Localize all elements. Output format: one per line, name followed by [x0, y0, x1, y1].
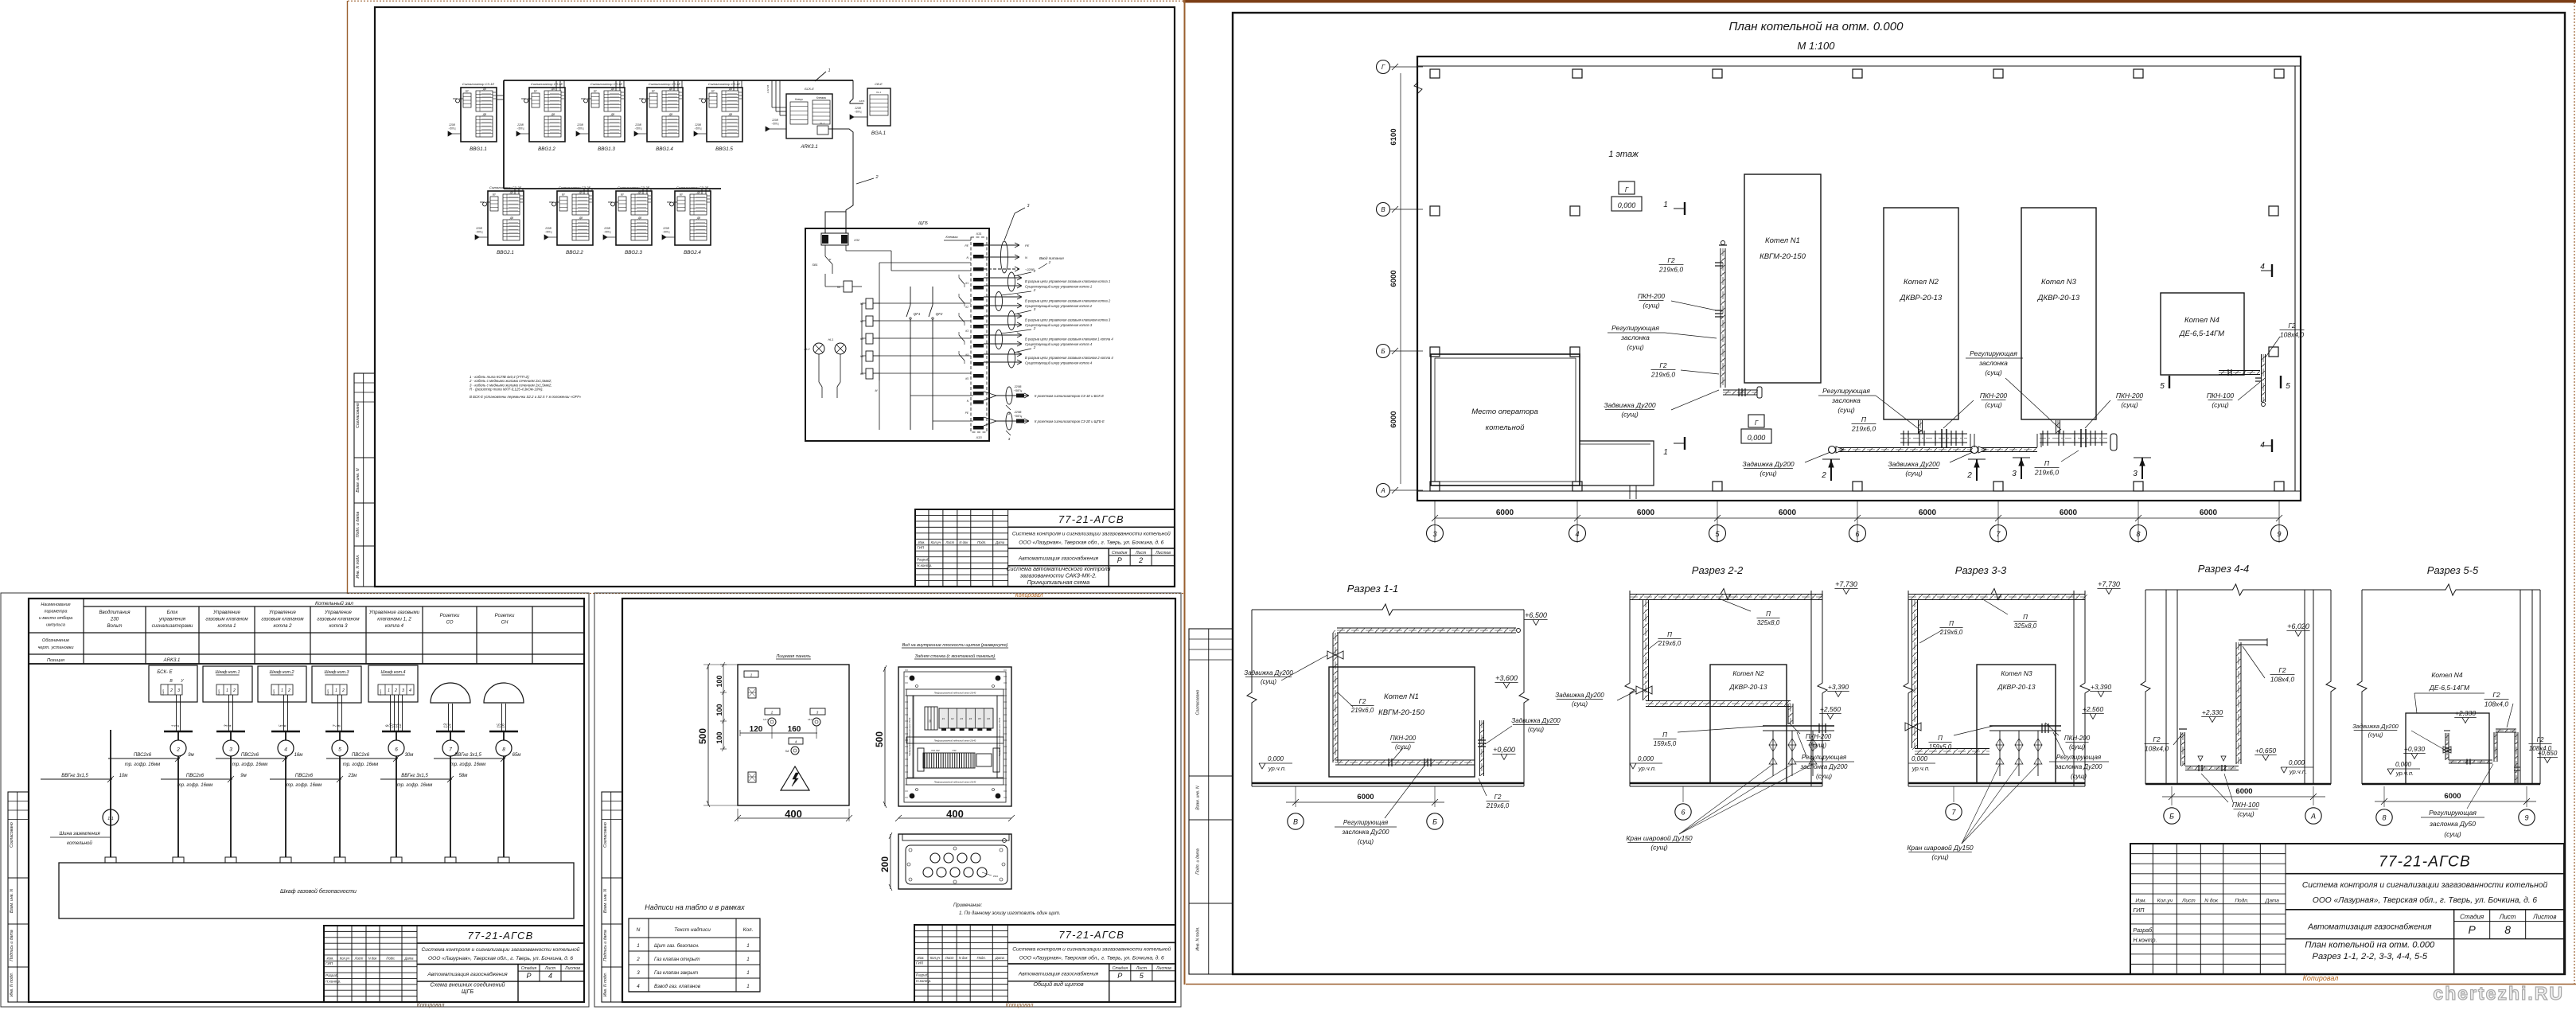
svg-text:Система контроля и сигнализаци: Система контроля и сигнализации загазова…	[1012, 530, 1171, 536]
wire bus top	[504, 80, 853, 81]
svg-text:ДВ: ДВ	[551, 113, 555, 116]
svg-text:Шкаф кот.2: Шкаф кот.2	[270, 670, 294, 675]
svg-text:Конт: Конт	[379, 689, 382, 696]
svg-text:ВВG2.1: ВВG2.1	[497, 250, 514, 255]
svg-text:(сущ): (сущ)	[2069, 743, 2085, 751]
svg-text:котла 2: котла 2	[273, 623, 292, 629]
svg-text:6: 6	[283, 724, 288, 727]
title block	[324, 926, 584, 1002]
svg-text:К1: К1	[965, 282, 968, 285]
left margin stamp boxes	[8, 792, 29, 1002]
elevation box 1	[1619, 181, 1635, 194]
svg-text:Г2: Г2	[1667, 256, 1675, 264]
svg-text:Перфорированный кабельный кана: Перфорированный кабельный канал 25х40	[999, 717, 1001, 756]
svg-text:Котел N1: Котел N1	[1765, 236, 1800, 245]
box BSK-E	[149, 665, 197, 702]
svg-text:Конт: Конт	[162, 689, 165, 696]
svg-text:Газ клапан открыт: Газ клапан открыт	[654, 957, 700, 962]
sheet 3 frame	[622, 599, 1175, 1002]
title block	[915, 509, 1175, 587]
wire ARK3.1 X1.1 to cabinet	[828, 129, 853, 228]
svg-text:6000: 6000	[1357, 793, 1374, 801]
svg-text:(сущ): (сущ)	[1627, 343, 1643, 351]
svg-text:220В: 220В	[448, 123, 455, 127]
svg-text:(сущ): (сущ)	[1810, 742, 1826, 749]
svg-text:220В: 220В	[475, 227, 482, 230]
svg-text:Газ клапан закрыт: Газ клапан закрыт	[654, 970, 698, 976]
svg-text:2: 2	[1033, 269, 1036, 273]
svg-text:К2: К2	[951, 717, 954, 720]
svg-text:(сущ): (сущ)	[2212, 401, 2228, 409]
svg-text:1: 1	[281, 688, 283, 693]
svg-text:220В: 220В	[662, 227, 669, 230]
svg-text:Котел N4: Котел N4	[2431, 671, 2463, 679]
svg-text:Управление газовыми: Управление газовыми	[368, 610, 420, 615]
svg-text:управления: управления	[158, 617, 186, 622]
svg-text:16: 16	[501, 723, 506, 728]
svg-text:2: 2	[1821, 471, 1826, 480]
svg-text:Обозначение: Обозначение	[42, 638, 69, 643]
svg-text:Перфорированный кабельный кана: Перфорированный кабельный канал 25х40	[909, 717, 911, 756]
svg-text:Подп.: Подп.	[977, 956, 986, 960]
output sockets group 2	[984, 417, 1029, 426]
glands	[930, 853, 940, 863]
svg-text:+6,500: +6,500	[1525, 611, 1547, 619]
svg-text:ГИП: ГИП	[325, 961, 333, 965]
section 3-3 walls	[1904, 591, 1913, 786]
svg-text:+2,560: +2,560	[2083, 705, 2104, 713]
svg-text:Котел N4: Котел N4	[2184, 316, 2219, 325]
svg-text:6000: 6000	[2444, 792, 2461, 801]
svg-text:Стадия: Стадия	[2460, 913, 2484, 920]
svg-text:В разрыв цепи управления газов: В разрыв цепи управления газовым клапано…	[1025, 279, 1110, 283]
svg-text:Шкаф газовой безопасности: Шкаф газовой безопасности	[280, 888, 357, 895]
svg-text:(сущ): (сущ)	[1528, 726, 1544, 733]
svg-text:ДВ: ДВ	[668, 113, 673, 116]
section 2-2 walls	[1625, 591, 1635, 786]
output group kotel 4	[984, 334, 1022, 336]
svg-text:108х4,0: 108х4,0	[2270, 676, 2295, 684]
svg-text:К5: К5	[965, 377, 968, 380]
section 2-2 grid circle	[1682, 786, 1684, 802]
svg-text:Кол.уч: Кол.уч	[340, 956, 350, 960]
svg-text:заслонка Ду200: заслонка Ду200	[1342, 829, 1390, 836]
svg-text:1: 1	[746, 970, 749, 976]
svg-text:219х6,0: 219х6,0	[1650, 371, 1676, 379]
svg-text:Разраб.: Разраб.	[325, 973, 339, 977]
svg-text:+6,020: +6,020	[2287, 622, 2309, 630]
svg-text:+7,730: +7,730	[1835, 580, 1857, 588]
svg-text:PE: PE	[1025, 244, 1030, 248]
svg-text:chertezhi.RU: chertezhi.RU	[2433, 983, 2564, 1004]
svg-text:Кол.уч: Кол.уч	[2157, 899, 2173, 904]
svg-text:НL1: НL1	[763, 718, 768, 721]
bottom dimension line	[1435, 517, 2279, 519]
wire bus bottom row	[504, 188, 721, 189]
svg-text:СН: СН	[501, 620, 509, 626]
svg-text:6000: 6000	[2200, 509, 2218, 517]
svg-text:А: А	[2310, 813, 2316, 821]
svg-text:Регулирующая: Регулирующая	[1822, 387, 1870, 395]
svg-text:К1: К1	[942, 717, 945, 720]
svg-text:~50Гц: ~50Гц	[663, 231, 670, 234]
svg-text:(сущ): (сущ)	[1395, 743, 1411, 751]
connector X32	[821, 233, 848, 245]
svg-text:4: 4	[2260, 263, 2265, 271]
svg-text:~50Гц: ~50Гц	[855, 111, 862, 114]
svg-text:2: 2	[232, 688, 236, 693]
svg-text:Лист: Лист	[354, 956, 364, 960]
svg-text:2: 2	[176, 747, 180, 753]
svg-text:План котельной на отм. 0.000: План котельной на отм. 0.000	[2305, 940, 2435, 950]
svg-text:6: 6	[1855, 530, 1859, 538]
svg-text:Разраб.: Разраб.	[2133, 927, 2153, 934]
svg-text:N док: N док	[2204, 898, 2219, 904]
svg-text:К4: К4	[965, 353, 968, 357]
svg-text:Инв. N подл.: Инв. N подл.	[10, 973, 14, 996]
svg-text:2: 2	[636, 957, 640, 962]
svg-text:К4: К4	[969, 717, 972, 720]
svg-text:0,000: 0,000	[1268, 755, 1284, 762]
svg-text:77-21-АГСВ: 77-21-АГСВ	[1058, 513, 1124, 525]
svg-text:П: П	[1861, 415, 1867, 423]
svg-text:ДВ: ДВ	[637, 216, 642, 220]
svg-text:219х6,0: 219х6,0	[2034, 469, 2060, 477]
svg-text:1: 1	[746, 984, 749, 989]
svg-text:Надписи на табло и в рамках: Надписи на табло и в рамках	[645, 903, 745, 911]
svg-text:ДВ: ДВ	[482, 113, 487, 116]
socket dome CO	[431, 683, 470, 703]
section 5-5 walls	[2357, 590, 2367, 784]
svg-text:Г2: Г2	[2153, 735, 2161, 743]
svg-text:Шкаф кот.1: Шкаф кот.1	[216, 670, 240, 675]
svg-text:~50Гц: ~50Гц	[604, 231, 611, 234]
cable channels	[906, 689, 1004, 696]
relay K6	[824, 274, 826, 287]
PKN-200 and damper assembly kotel N2	[1900, 433, 1967, 435]
svg-text:ДВ: ДВ	[696, 216, 701, 220]
svg-text:В разрыв цепи управления газов: В разрыв цепи управления газовым клапано…	[1025, 337, 1113, 341]
svg-text:100: 100	[715, 675, 723, 687]
svg-text:58м: 58м	[459, 774, 468, 778]
svg-text:ПКН-200: ПКН-200	[2116, 392, 2144, 400]
box shkaf kot3	[312, 666, 361, 703]
svg-text:325х8,0: 325х8,0	[2014, 622, 2037, 630]
svg-text:Х33: Х33	[952, 749, 957, 752]
svg-text:Дата: Дата	[995, 956, 1005, 960]
svg-text:Позиция: Позиция	[47, 658, 64, 663]
gland box dims	[890, 834, 891, 889]
svg-text:3: 3	[637, 970, 640, 976]
svg-text:Изм.: Изм.	[918, 540, 926, 544]
svg-text:108х4,0: 108х4,0	[2280, 331, 2305, 339]
svg-text:ДКВР-20-13: ДКВР-20-13	[2037, 294, 2080, 302]
svg-text:220В: 220В	[516, 123, 524, 127]
svg-text:219х6,0: 219х6,0	[1658, 640, 1682, 647]
svg-text:2: 2	[287, 688, 290, 693]
svg-text:заслонка: заслонка	[1978, 359, 2008, 367]
svg-text:П: П	[2023, 614, 2028, 621]
svg-text:заслонка: заслонка	[1831, 396, 1861, 404]
svg-text:+3,390: +3,390	[1828, 683, 1849, 691]
svg-text:Кол.: Кол.	[743, 927, 754, 933]
svg-text:ДКВР-20-13: ДКВР-20-13	[1900, 294, 1943, 302]
svg-text:8: 8	[502, 747, 505, 753]
rear panel dims	[884, 667, 886, 806]
svg-text:N: N	[637, 927, 641, 933]
sheet 3 paper edge	[594, 593, 1181, 1007]
svg-text:(сущ): (сущ)	[1837, 406, 1854, 414]
svg-text:6: 6	[1681, 809, 1685, 817]
svg-text:2: 2	[1033, 345, 1036, 349]
svg-text:Х1.1: Х1.1	[819, 122, 825, 125]
gland box	[898, 834, 1011, 889]
svg-text:120: 120	[750, 725, 763, 734]
svg-text:Лист: Лист	[2181, 899, 2196, 904]
svg-text:(сущ): (сущ)	[1572, 700, 1588, 708]
svg-text:ГИП: ГИП	[916, 961, 924, 965]
riser to boiler N2	[1918, 420, 1919, 434]
svg-text:~50Гц: ~50Гц	[1014, 415, 1023, 418]
grid circles numbers	[1427, 525, 1444, 542]
svg-text:Х33: Х33	[975, 435, 982, 439]
output group kotel 2	[984, 296, 1022, 298]
svg-text:Взам. инв. N: Взам. инв. N	[1196, 786, 1201, 809]
svg-text:ур.ч.п.: ур.ч.п.	[2289, 768, 2307, 775]
svg-text:К розеткам сигнализаторов СЗ-1: К розеткам сигнализаторов СЗ-1Е и БСК-Е	[1035, 394, 1104, 398]
svg-text:Изм.: Изм.	[327, 956, 334, 960]
svg-text:QF2: QF2	[936, 312, 943, 316]
svg-text:Регулирующая: Регулирующая	[2429, 809, 2477, 817]
svg-text:Примечание:: Примечание:	[953, 903, 983, 908]
box shkaf kot2	[258, 666, 306, 702]
svg-text:ВGA.1: ВGA.1	[871, 131, 886, 136]
column squares rows B,B2	[1430, 206, 1440, 216]
svg-text:ВВG2.3: ВВG2.3	[625, 250, 642, 255]
svg-text:Котельный зал: Котельный зал	[315, 600, 353, 606]
svg-text:Н.контр.: Н.контр.	[325, 979, 341, 983]
svg-text:заслонка Ду200: заслонка Ду200	[1800, 763, 1849, 770]
svg-text:К6: К6	[987, 717, 990, 720]
svg-text:Вводпитания: Вводпитания	[99, 610, 131, 615]
svg-text:тр. гофр. 16мм: тр. гофр. 16мм	[286, 783, 322, 788]
svg-text:4: 4	[637, 984, 640, 989]
svg-text:Лицевая панель: Лицевая панель	[775, 654, 811, 659]
svg-text:параметра: параметра	[44, 610, 67, 614]
svg-text:ХАТ1: ХАТ1	[858, 99, 865, 103]
boiler N2	[1884, 208, 1958, 419]
svg-text:ПВС2х6: ПВС2х6	[134, 753, 152, 758]
svg-text:+7,730: +7,730	[2098, 580, 2120, 588]
boiler N1	[1744, 174, 1821, 383]
svg-text:котельной: котельной	[1486, 423, 1526, 432]
svg-text:+0,930: +0,930	[2404, 745, 2426, 753]
svg-text:9: 9	[2524, 814, 2528, 822]
svg-text:1: 1	[1663, 448, 1668, 457]
svg-text:16м: 16м	[294, 753, 303, 758]
svg-text:КВГМ-20-150: КВГМ-20-150	[1760, 252, 1806, 261]
svg-text:Х31 Х32: Х31 Х32	[930, 749, 940, 752]
svg-text:Вид на внутренние плоскости щи: Вид на внутренние плоскости щитов (разве…	[902, 643, 1008, 648]
svg-text:П: П	[1766, 610, 1771, 618]
section 4-4 dim	[2171, 786, 2173, 805]
svg-text:Стадия: Стадия	[521, 966, 537, 971]
wall break marks bottom	[1629, 486, 1631, 499]
svg-text:5: 5	[2160, 382, 2165, 391]
svg-text:~50Гц: ~50Гц	[476, 231, 483, 234]
svg-text:котла 4: котла 4	[385, 623, 404, 629]
svg-text:Взвод газ. клапанов: Взвод газ. клапанов	[654, 984, 701, 989]
svg-text:220В: 220В	[603, 227, 610, 230]
svg-text:Шина заземления: Шина заземления	[59, 831, 100, 836]
svg-text:6000: 6000	[1779, 509, 1797, 517]
svg-text:ПВС2х6: ПВС2х6	[295, 774, 314, 778]
svg-text:R - (резистор типа МЛТ-0,125-4: R - (резистор типа МЛТ-0,125-4,3кОм-10%)…	[470, 388, 544, 392]
svg-text:220В: 220В	[576, 123, 583, 127]
wire stubs ВВG2.3 to bus	[642, 189, 644, 194]
svg-text:Регулирующая: Регулирующая	[1343, 819, 1389, 826]
sheet 2 frame	[29, 599, 584, 1002]
svg-text:6100: 6100	[1389, 128, 1398, 145]
svg-text:12: 12	[398, 723, 403, 728]
section 1-1 boiler	[1329, 667, 1475, 777]
svg-text:ур.ч.п.: ур.ч.п.	[1268, 765, 1286, 772]
svg-text:325х8,0: 325х8,0	[1757, 619, 1780, 626]
svg-text:К5: К5	[978, 717, 981, 720]
lamps HL2 HL1	[813, 343, 824, 354]
svg-text:100: 100	[715, 704, 723, 716]
wire stubs ВВG1.5 to bus	[733, 80, 735, 91]
svg-text:8: 8	[2382, 814, 2386, 822]
svg-text:Лист: Лист	[945, 540, 954, 544]
svg-text:2: 2	[875, 175, 878, 180]
svg-text:Г: Г	[1382, 64, 1385, 71]
svg-text:Г2: Г2	[1659, 361, 1667, 369]
sheet 4 paper edges	[1183, 0, 2576, 3]
svg-text:220В: 220В	[1014, 411, 1022, 414]
svg-text:ВВG1.3: ВВG1.3	[598, 146, 615, 152]
svg-text:1: 1	[388, 688, 390, 693]
svg-text:6000: 6000	[2060, 509, 2078, 517]
svg-text:Сигнализатор СЗ-1Е: Сигнализатор СЗ-1Е	[649, 82, 681, 86]
wire BBG1.1 to bus	[497, 95, 504, 96]
grid circles letters	[1377, 60, 1390, 74]
svg-text:и место отбора: и место отбора	[39, 616, 72, 621]
contact symbols near strip	[959, 278, 965, 284]
svg-text:500: 500	[697, 728, 708, 744]
svg-text:7: 7	[449, 747, 452, 753]
svg-text:Система контроля и сигнализаци: Система контроля и сигнализации загазова…	[2302, 881, 2548, 890]
svg-text:Задвижка Ду200: Задвижка Ду200	[1888, 460, 1940, 468]
svg-text:6: 6	[395, 747, 398, 753]
svg-text:Инв. N подл.: Инв. N подл.	[603, 973, 608, 996]
svg-text:ПВС2х6: ПВС2х6	[186, 774, 205, 778]
svg-text:котельной: котельной	[67, 840, 92, 846]
svg-text:Котел N2: Котел N2	[1732, 669, 1764, 677]
svg-text:Общий вид щитов: Общий вид щитов	[1033, 981, 1083, 988]
svg-text:Шкаф кот.4: Шкаф кот.4	[381, 670, 406, 675]
svg-text:Р: Р	[1117, 972, 1122, 980]
section marks plan	[1684, 202, 1686, 215]
svg-text:Клеммы: Клеммы	[816, 96, 827, 99]
svg-text:В разрыв цепи управления газов: В разрыв цепи управления газовым клапано…	[1025, 356, 1113, 360]
svg-text:К2: К2	[965, 306, 968, 309]
svg-text:К3: К3	[965, 330, 968, 333]
svg-text:сигнализаторами: сигнализаторами	[152, 623, 193, 629]
svg-text:Н.контр.: Н.контр.	[916, 979, 931, 983]
svg-text:План котельной на отм. 0.000: План котельной на отм. 0.000	[1729, 20, 1904, 33]
svg-text:Лист: Лист	[945, 956, 954, 960]
svg-text:Перфорированный кабельный кана: Перфорированный кабельный канал 25х40	[934, 739, 976, 743]
svg-text:Разрез 1-1, 2-2, 3-3, 4-4, 5-5: Разрез 1-1, 2-2, 3-3, 4-4, 5-5	[2313, 952, 2428, 961]
boiler N4	[2161, 293, 2244, 375]
section 3-3 riser pipe	[1912, 599, 1913, 748]
svg-text:Задвижка Ду200: Задвижка Ду200	[2352, 723, 2399, 730]
svg-text:+2,330: +2,330	[2455, 709, 2477, 717]
svg-text:SB1: SB1	[812, 263, 817, 267]
svg-text:Задвижка Ду200: Задвижка Ду200	[1604, 401, 1656, 409]
svg-text:газовым клапаном: газовым клапаном	[317, 617, 360, 622]
left margin stamp boxes	[354, 373, 375, 587]
svg-text:тр. гофр. 16мм: тр. гофр. 16мм	[125, 762, 160, 767]
cabinet outputs right side power	[984, 244, 1019, 246]
box shkaf kot4	[368, 665, 418, 702]
svg-text:5: 5	[338, 747, 341, 753]
svg-text:~50Гц: ~50Гц	[635, 127, 642, 131]
svg-text:N: N	[1025, 255, 1027, 259]
svg-text:SA: SA	[785, 750, 789, 753]
svg-text:Система контроля и сигнализаци: Система контроля и сигнализации загазова…	[1012, 946, 1171, 952]
svg-text:0,000: 0,000	[1912, 755, 1928, 762]
section 5-5 boiler N4 box	[2406, 713, 2489, 784]
vertical dims 6100 6000 6000	[1400, 73, 1401, 484]
section 3-3 boiler N3	[1977, 665, 2056, 783]
svg-text:HL2: HL2	[805, 348, 811, 351]
svg-text:ARK3.1: ARK3.1	[163, 658, 181, 663]
socket dome CH	[484, 683, 524, 703]
svg-text:Г2: Г2	[2288, 322, 2296, 330]
svg-text:П: П	[1949, 620, 1954, 627]
svg-text:Сигнализатор СЗ-1Е: Сигнализатор СЗ-1Е	[462, 82, 495, 86]
output sockets group 1	[984, 392, 1029, 400]
svg-text:ДВ: ДВ	[610, 113, 615, 116]
sheet 1 frame	[375, 7, 1175, 587]
column squares top	[1430, 69, 1440, 78]
cabinet ShchGB box	[805, 228, 989, 441]
svg-text:~50Гц: ~50Гц	[1014, 389, 1023, 392]
svg-text:П: П	[1667, 631, 1672, 638]
svg-text:400: 400	[785, 808, 802, 820]
svg-text:220В: 220В	[854, 107, 861, 110]
svg-text:Кран шаровой Ду150: Кран шаровой Ду150	[1626, 834, 1693, 842]
svg-text:Автоматизация газоснабжения: Автоматизация газоснабжения	[1018, 556, 1099, 562]
svg-text:Лист: Лист	[1136, 966, 1148, 971]
svg-text:П: П	[1938, 735, 1943, 742]
svg-text:9: 9	[2277, 530, 2281, 538]
svg-text:Перфорированный кабельный кана: Перфорированный кабельный канал 25х40	[934, 692, 976, 695]
svg-text:тр. гофр. 16мм: тр. гофр. 16мм	[397, 783, 432, 788]
svg-text:ПКН-100: ПКН-100	[2207, 392, 2235, 400]
sheet 1 paper edges	[347, 1, 349, 594]
svg-text:160: 160	[788, 725, 801, 734]
rear panel drawing	[898, 667, 1011, 806]
wire stubs ВВG2.4 to bus	[701, 189, 703, 194]
svg-text:В: В	[1381, 206, 1385, 213]
svg-text:Н.контр.: Н.контр.	[2133, 938, 2157, 944]
svg-text:Автоматизация газоснабжения: Автоматизация газоснабжения	[427, 971, 508, 977]
svg-text:Г2: Г2	[2537, 736, 2544, 743]
svg-text:Разрез 5-5: Разрез 5-5	[2427, 564, 2479, 576]
